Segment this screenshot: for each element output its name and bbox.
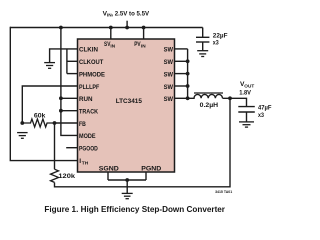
svg-text:TH: TH xyxy=(82,161,89,167)
svg-text:SW: SW xyxy=(164,84,174,91)
wire 120k bottom to VOUT feedback rail xyxy=(55,98,231,187)
ground (PLLLPF / 60k) xyxy=(17,133,28,139)
node rail-VIN xyxy=(125,26,129,30)
resistor R2 120k xyxy=(51,169,59,182)
node rail-PVIN xyxy=(142,26,146,30)
svg-text:OUT: OUT xyxy=(244,84,254,89)
node RUN xyxy=(59,96,63,100)
svg-text:IN: IN xyxy=(110,43,115,48)
IC U1 LTC3415 body xyxy=(78,39,175,172)
svg-text:PHMODE: PHMODE xyxy=(79,71,105,78)
svg-text:CLKIN: CLKIN xyxy=(79,47,98,54)
svg-text:IN: IN xyxy=(141,43,146,48)
svg-text:x3: x3 xyxy=(258,112,264,119)
wire PLLLPF to ground node xyxy=(22,86,77,123)
wire SVIN stub xyxy=(110,28,112,40)
wire SW2 stub xyxy=(175,60,188,62)
svg-text:47µF: 47µF xyxy=(258,104,272,111)
wire SW4 stub xyxy=(175,85,188,87)
svg-text:3415 TA01: 3415 TA01 xyxy=(215,190,232,194)
inductor L1 0.2uH xyxy=(188,93,223,98)
svg-text:60k: 60k xyxy=(34,112,46,119)
wire SW5 stub xyxy=(175,97,188,99)
node junction dots xyxy=(20,26,232,182)
wire 47uF stem bottom xyxy=(246,112,248,122)
svg-text:SW: SW xyxy=(164,96,174,103)
wire SW3 stub xyxy=(175,73,188,75)
ground (CLKIN) xyxy=(44,63,55,69)
node FB xyxy=(53,121,57,125)
wire line A (VIN to RUN/TRACK/MODE) xyxy=(61,28,78,136)
wire PHMODE stub xyxy=(67,73,78,75)
svg-text:FB: FB xyxy=(79,121,86,128)
wire RUN stub xyxy=(61,97,78,99)
svg-text:0.2µH: 0.2µH xyxy=(200,102,219,109)
node SW4 xyxy=(186,84,190,88)
node rail-SVIN xyxy=(109,26,113,30)
wire 22uF stem top xyxy=(202,28,204,38)
wire left outer loop (VIN to ITH) xyxy=(10,27,77,161)
node rail-lineA xyxy=(59,26,63,30)
svg-text:SW: SW xyxy=(164,47,174,54)
svg-text:SW: SW xyxy=(164,59,174,66)
node SW5 xyxy=(186,96,190,100)
capacitor C1 22uF x3 xyxy=(196,37,209,42)
node SGND-PGND xyxy=(125,178,129,182)
svg-text:x3: x3 xyxy=(213,40,219,47)
wire CLKOUT stub xyxy=(67,60,78,62)
svg-text:Figure 1. High Efficiency Step: Figure 1. High Efficiency Step-Down Conv… xyxy=(44,205,225,214)
wire PGOOD stub xyxy=(66,147,77,149)
wire SGND stub xyxy=(107,172,109,180)
svg-text:PGOOD: PGOOD xyxy=(79,146,98,153)
svg-text:SW: SW xyxy=(164,71,174,78)
svg-text:, 2.5V to 5.5V: , 2.5V to 5.5V xyxy=(111,10,149,17)
svg-text:CLKOUT: CLKOUT xyxy=(79,59,103,66)
wire ground stem below SGND/PGND xyxy=(126,180,128,193)
svg-text:1.8V: 1.8V xyxy=(239,89,251,96)
ground (22uF) xyxy=(197,51,208,57)
ground (47uF) xyxy=(239,122,254,127)
svg-text:PLLLPF: PLLLPF xyxy=(79,84,99,91)
wire TRACK stub xyxy=(61,110,78,112)
resistor R1 60k xyxy=(22,119,54,127)
wire VIN input tick xyxy=(126,21,128,28)
svg-text:SGND: SGND xyxy=(99,166,119,173)
node SW2 xyxy=(186,59,190,63)
node 60k-gnd xyxy=(20,121,24,125)
wire SW collector xyxy=(187,49,189,98)
capacitor C2 47uF x3 xyxy=(238,107,255,112)
svg-text:LTC3415: LTC3415 xyxy=(116,98,142,105)
wire 22uF stem bottom xyxy=(202,42,204,51)
svg-text:RUN: RUN xyxy=(79,96,93,103)
svg-text:120k: 120k xyxy=(58,173,75,180)
node SW3 xyxy=(186,72,190,76)
wire PGND stub xyxy=(145,172,147,180)
svg-text:PGND: PGND xyxy=(141,166,161,173)
wire VOUT to 47uF xyxy=(223,98,247,106)
wire VIN top rail xyxy=(10,27,203,29)
wire FB node down to 120k xyxy=(54,123,56,169)
wire SGND-PGND link xyxy=(108,179,146,181)
ground (SGND/PGND) xyxy=(122,193,133,198)
wire SW1 stub xyxy=(175,48,188,50)
wire FB stub xyxy=(55,122,78,124)
node TRACK xyxy=(59,109,63,113)
svg-text:MODE: MODE xyxy=(79,133,96,140)
node VOUT xyxy=(228,96,232,100)
svg-text:TRACK: TRACK xyxy=(79,109,98,116)
wire PVIN stub xyxy=(143,28,145,40)
wire line B (CLKOUT/PHMODE) xyxy=(66,49,68,74)
wire CLKIN to ground xyxy=(50,49,78,63)
